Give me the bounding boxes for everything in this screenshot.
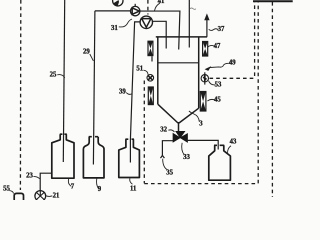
label 7 [68,179,74,191]
label 25 [50,71,65,78]
label 51 [136,66,148,75]
dashed line valve53 to enclosure [210,77,255,79]
pump 41 (B) [140,0,152,28]
pump P top (cropped) [113,0,123,6]
valve 33 (bowtie) [173,131,188,142]
dashed outer right edge [271,2,273,197]
label 47 [208,43,221,50]
bottle 43 [209,145,231,180]
wire pump41 to vessel left pipe [152,21,166,48]
svg-text:23: 23 [26,173,33,180]
svg-text:33: 33 [183,154,190,161]
svg-text:39: 39 [119,89,126,96]
valve 51 [147,75,154,82]
stray tick near pipe [190,8,196,9]
wire tank 9 feed pipe 29 [93,11,95,165]
label 35 [163,159,174,177]
valve 53 [201,72,208,84]
tank 9 [83,137,104,178]
svg-text:3: 3 [199,120,203,127]
pump 31 (A) [131,4,140,16]
dashed enclosure left edge [143,81,145,184]
svg-text:29: 29 [83,48,90,55]
label 21 [46,192,60,199]
label 33 [182,143,191,161]
label 23 [26,173,39,180]
label 41 [155,0,166,11]
wire valve33 left outlet 35 [161,141,174,158]
vessel left wall [157,37,159,104]
wire vessel right feed pipe [188,0,190,48]
svg-text:49: 49 [229,60,236,67]
label 3 [189,111,203,127]
label 39 [119,89,132,96]
svg-text:35: 35 [166,169,173,176]
svg-text:21: 21 [53,192,60,199]
wire pump21 to tank7 pipe 23 [40,173,52,190]
vessel inner level line [158,62,199,64]
label 11 [130,178,137,192]
wire tank 7 feed pipe 25 [63,0,64,162]
heater box 47 right upper [203,42,208,57]
tank 7 [52,134,74,178]
vessel right wall [198,37,200,108]
label 49 [205,60,237,71]
label 29 [83,48,93,61]
svg-text:55: 55 [3,186,10,193]
svg-text:7: 7 [71,183,75,190]
wire pump31 outlet to vessel center pipe [140,11,180,49]
dashed boundary left [19,0,21,190]
svg-text:37: 37 [218,26,225,33]
dashed riser right inner [254,2,256,76]
wire pump41 to tank 11 pipe 39 [130,22,140,163]
label 32 [160,126,174,133]
heater box left upper [148,41,153,61]
svg-text:43: 43 [230,139,237,146]
heater box 45 right lower [200,92,206,112]
vessel 55 [14,193,23,200]
svg-text:11: 11 [130,185,137,192]
label 37 [209,26,225,33]
svg-text:25: 25 [50,71,57,78]
label 43 [228,139,237,153]
heater box left lower [148,87,153,105]
exhaust arrow 37 [204,13,209,37]
wire main top header [95,10,131,12]
pump 21 [35,191,46,202]
svg-text:51: 51 [136,66,143,73]
dashed enclosure bottom edge [144,183,258,185]
vessel cone [158,104,199,133]
wire valve33 right outlet to bottle 43 [187,140,219,149]
svg-text:9: 9 [98,186,102,193]
label 45 [207,96,221,103]
label 31 [111,19,132,32]
svg-text:53: 53 [215,81,222,88]
tank 11 [119,139,140,177]
svg-text:31: 31 [111,25,118,32]
svg-text:32: 32 [160,126,167,133]
label 53 [209,81,223,89]
solid top right line [253,0,293,2]
vessel lid [156,36,207,38]
dashed enclosure right edge [257,2,259,183]
label 9 [97,178,102,192]
label 55 [3,186,13,194]
